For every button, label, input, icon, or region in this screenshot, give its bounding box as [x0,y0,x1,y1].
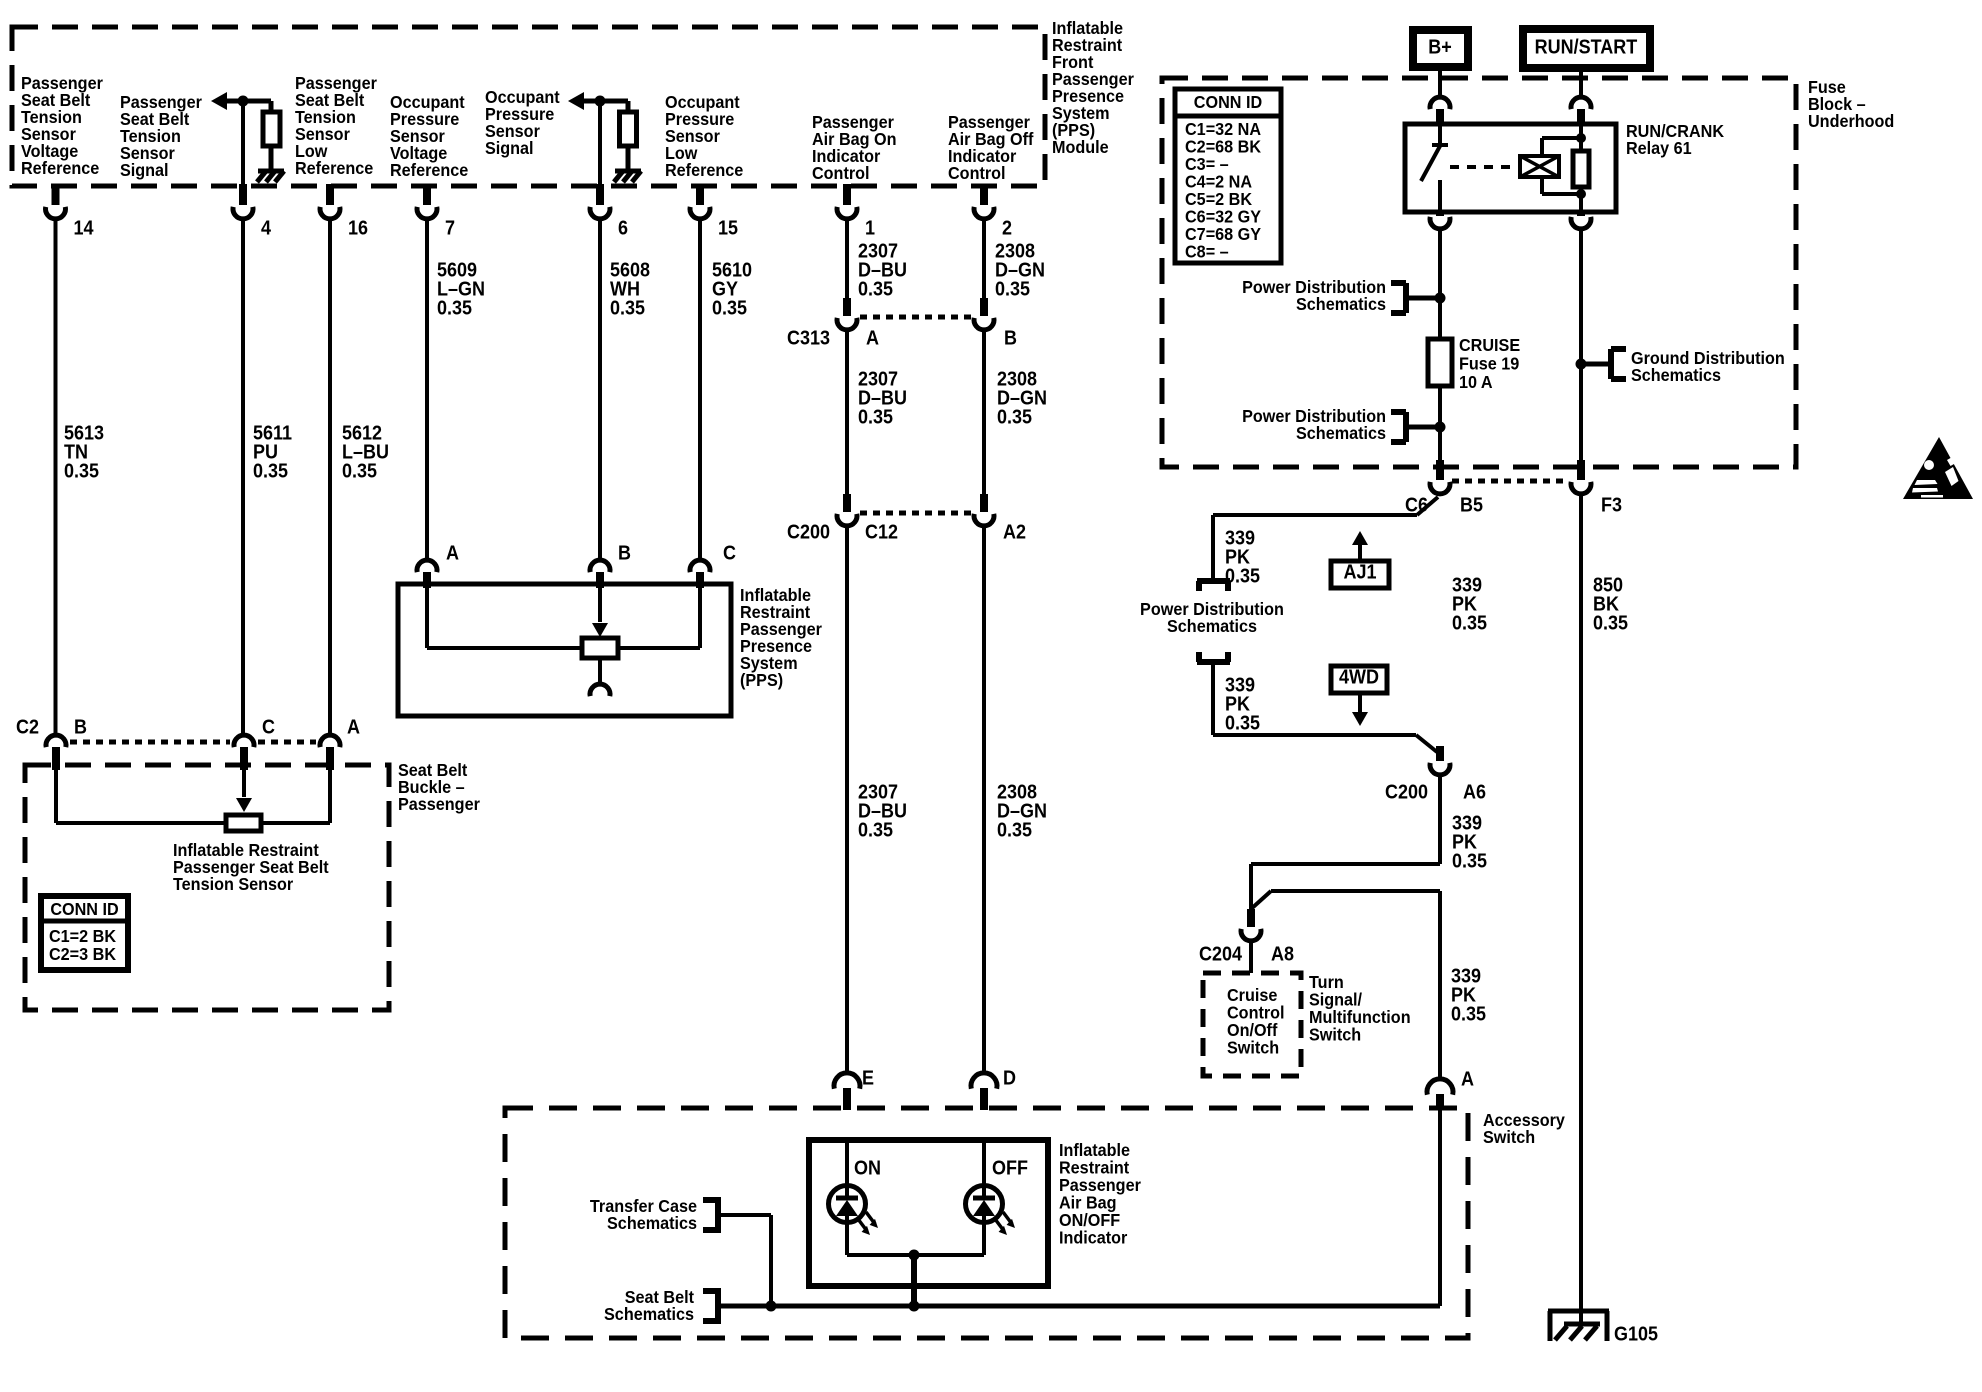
svg-text:C200: C200 [787,522,830,544]
svg-text:7: 7 [445,218,455,240]
svg-text:B: B [618,543,631,565]
svg-text:B: B [74,717,87,739]
svg-text:A: A [347,717,360,739]
svg-text:C1=2 BKC2=3 BK: C1=2 BKC2=3 BK [49,926,117,964]
svg-text:A6: A6 [1463,782,1486,804]
svg-text:1: 1 [865,218,875,240]
svg-text:C2: C2 [16,717,39,739]
svg-text:AJ1: AJ1 [1343,562,1376,584]
svg-text:C: C [262,717,275,739]
svg-text:A: A [446,543,459,565]
svg-text:6: 6 [618,218,628,240]
svg-text:A2: A2 [1003,522,1026,544]
svg-text:16: 16 [348,218,368,240]
svg-text:CONN ID: CONN ID [1194,92,1262,112]
svg-text:A8: A8 [1271,944,1294,966]
svg-text:C1=32 NAC2=68 BKC3= –C4=2 NAC5: C1=32 NAC2=68 BKC3= –C4=2 NAC5=2 BKC6=32… [1185,119,1262,261]
svg-text:C12: C12 [865,522,898,544]
svg-text:14: 14 [74,218,94,240]
svg-text:A: A [866,328,879,350]
svg-text:CONN ID: CONN ID [50,899,118,919]
svg-text:G105: G105 [1614,1324,1658,1346]
svg-text:2: 2 [1002,218,1012,240]
svg-text:C: C [723,543,736,565]
svg-text:OFF: OFF [992,1158,1028,1180]
svg-text:B+: B+ [1428,37,1452,59]
svg-text:B: B [1004,328,1017,350]
svg-text:C313: C313 [787,328,830,350]
svg-text:4: 4 [261,218,271,240]
svg-text:4WD: 4WD [1339,667,1379,689]
svg-text:C200: C200 [1385,782,1428,804]
svg-text:E: E [862,1068,874,1090]
svg-text:A: A [1461,1069,1474,1091]
svg-text:B5: B5 [1460,495,1483,517]
svg-text:RUN/START: RUN/START [1535,37,1638,59]
svg-text:C204: C204 [1199,944,1242,966]
svg-text:D: D [1003,1068,1016,1090]
svg-text:F3: F3 [1601,495,1622,517]
svg-text:15: 15 [718,218,738,240]
svg-text:ON: ON [854,1158,881,1180]
svg-text:CruiseControlOn/OffSwitch: CruiseControlOn/OffSwitch [1227,985,1285,1057]
